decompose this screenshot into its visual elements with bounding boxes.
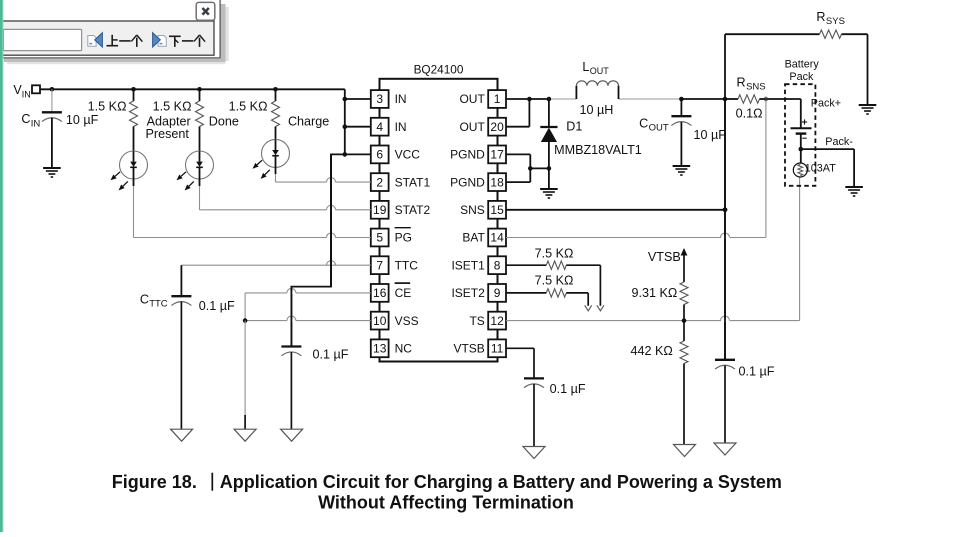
svg-text:R: R <box>737 76 746 90</box>
svg-text:12: 12 <box>490 314 504 328</box>
svg-text:TS: TS <box>469 314 484 328</box>
svg-text:PGND: PGND <box>450 148 485 162</box>
svg-text:STAT1: STAT1 <box>395 175 431 189</box>
svg-text:20: 20 <box>490 120 504 134</box>
svg-text:PGND: PGND <box>450 175 485 189</box>
svg-text:D1: D1 <box>566 120 582 134</box>
svg-text:BAT: BAT <box>462 231 485 245</box>
svg-text:MMBZ18VALT1: MMBZ18VALT1 <box>554 143 642 157</box>
svg-text:ISET2: ISET2 <box>451 286 485 300</box>
svg-text:IN: IN <box>395 92 407 106</box>
svg-text:9: 9 <box>494 286 501 300</box>
svg-text:103AT: 103AT <box>805 163 836 175</box>
svg-text:VTSB: VTSB <box>453 342 484 356</box>
svg-text:0.1Ω: 0.1Ω <box>736 107 763 121</box>
svg-text:SNS: SNS <box>746 82 766 93</box>
svg-text:Charge: Charge <box>288 115 329 129</box>
svg-text:Application Circuit for Chargi: Application Circuit for Charging a Batte… <box>220 472 782 492</box>
svg-text:R: R <box>816 10 825 24</box>
svg-text:OUT: OUT <box>590 66 610 76</box>
svg-text:IN: IN <box>31 119 41 130</box>
svg-text:L: L <box>582 60 589 74</box>
svg-text:VCC: VCC <box>395 148 421 162</box>
svg-text:6: 6 <box>376 148 383 162</box>
svg-text:0.1 µF: 0.1 µF <box>313 348 349 362</box>
svg-text:7.5 KΩ: 7.5 KΩ <box>535 247 574 261</box>
svg-text:TTC: TTC <box>395 258 419 272</box>
svg-text:IN: IN <box>22 90 31 100</box>
svg-text:19: 19 <box>373 203 387 217</box>
svg-text:PG: PG <box>395 231 412 245</box>
svg-text:1: 1 <box>494 92 501 106</box>
svg-text:13: 13 <box>373 342 387 356</box>
svg-text:NC: NC <box>395 342 413 356</box>
svg-text:SYS: SYS <box>826 16 845 27</box>
svg-text:C: C <box>639 117 648 131</box>
svg-text:1.5 KΩ: 1.5 KΩ <box>153 100 192 114</box>
svg-text:7.5 KΩ: 7.5 KΩ <box>535 273 574 287</box>
svg-text:10 µF: 10 µF <box>694 128 727 142</box>
svg-text:9.31 KΩ: 9.31 KΩ <box>632 286 678 300</box>
svg-text:VTSB: VTSB <box>648 250 681 264</box>
svg-text:Battery: Battery <box>785 58 820 70</box>
svg-text:C: C <box>140 293 149 307</box>
svg-text:TTC: TTC <box>149 299 168 310</box>
svg-text:18: 18 <box>490 175 504 189</box>
svg-text:14: 14 <box>490 231 504 245</box>
svg-text:Pack: Pack <box>789 71 814 83</box>
svg-text:VSS: VSS <box>395 314 419 328</box>
svg-text:Pack+: Pack+ <box>811 98 841 110</box>
svg-text:C: C <box>21 112 30 126</box>
svg-text:15: 15 <box>490 203 504 217</box>
svg-text:IN: IN <box>395 120 407 134</box>
svg-text:Pack-: Pack- <box>825 136 853 148</box>
svg-text:2: 2 <box>376 175 383 189</box>
svg-text:1.5 KΩ: 1.5 KΩ <box>229 100 268 114</box>
svg-text:10: 10 <box>373 314 387 328</box>
svg-text:0.1 µF: 0.1 µF <box>199 299 235 313</box>
svg-text:SNS: SNS <box>460 203 485 217</box>
svg-text:10 µF: 10 µF <box>66 113 99 127</box>
svg-text:BQ24100: BQ24100 <box>414 63 464 77</box>
svg-text:442 KΩ: 442 KΩ <box>631 344 673 358</box>
svg-text:Done: Done <box>209 115 239 129</box>
svg-text:11: 11 <box>491 342 504 356</box>
svg-text:Without Affecting Termination: Without Affecting Termination <box>318 493 574 513</box>
svg-text:5: 5 <box>376 231 383 245</box>
svg-text:OUT: OUT <box>459 92 485 106</box>
svg-text:8: 8 <box>494 258 501 272</box>
svg-text:ISET1: ISET1 <box>451 258 485 272</box>
svg-text:17: 17 <box>490 148 504 162</box>
svg-text:OUT: OUT <box>649 123 669 134</box>
svg-text:0.1 µF: 0.1 µF <box>739 365 775 379</box>
svg-text:OUT: OUT <box>459 120 485 134</box>
svg-text:STAT2: STAT2 <box>395 203 431 217</box>
svg-text:Present: Present <box>145 127 189 141</box>
svg-text:7: 7 <box>376 258 383 272</box>
svg-text:16: 16 <box>373 286 387 300</box>
svg-text:3: 3 <box>376 92 383 106</box>
svg-text:4: 4 <box>376 120 383 134</box>
svg-text:CE: CE <box>395 286 412 300</box>
svg-text:1.5 KΩ: 1.5 KΩ <box>88 100 127 114</box>
svg-text:0.1 µF: 0.1 µF <box>550 382 586 396</box>
svg-text:Figure 18.: Figure 18. <box>112 472 197 492</box>
svg-text:10 µH: 10 µH <box>580 103 614 117</box>
